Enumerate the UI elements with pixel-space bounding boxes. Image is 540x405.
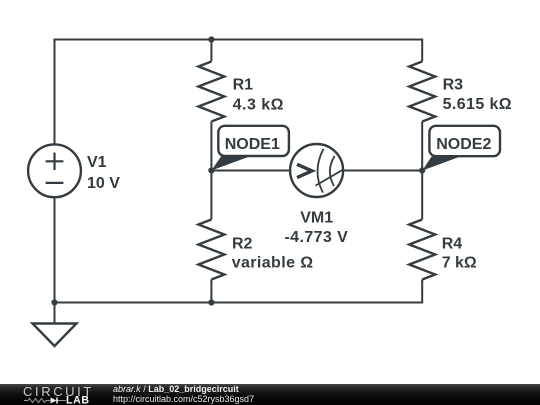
- svg-text:7 kΩ: 7 kΩ: [442, 255, 477, 272]
- svg-text:NODE2: NODE2: [436, 136, 491, 153]
- svg-text:10 V: 10 V: [87, 175, 120, 192]
- svg-text:-4.773 V: -4.773 V: [284, 229, 348, 246]
- svg-text:V1: V1: [87, 154, 107, 171]
- svg-text:LAB: LAB: [66, 394, 90, 405]
- svg-text:R1: R1: [233, 76, 254, 93]
- svg-text:R3: R3: [443, 76, 464, 93]
- svg-text:R4: R4: [442, 235, 463, 252]
- svg-text:NODE1: NODE1: [225, 136, 280, 153]
- svg-text:variable Ω: variable Ω: [232, 255, 314, 272]
- svg-text:VM1: VM1: [300, 209, 333, 226]
- svg-text:R2: R2: [232, 235, 253, 252]
- svg-text:5.615 kΩ: 5.615 kΩ: [443, 96, 512, 113]
- svg-text:4.3 kΩ: 4.3 kΩ: [233, 96, 284, 113]
